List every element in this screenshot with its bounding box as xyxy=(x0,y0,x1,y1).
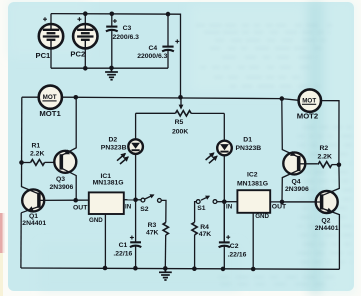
svg-text:MOT: MOT xyxy=(43,94,57,101)
svg-text:S1: S1 xyxy=(197,205,206,212)
svg-text:PN323B: PN323B xyxy=(101,145,127,152)
svg-text:S2: S2 xyxy=(140,206,149,213)
svg-text:2N3906: 2N3906 xyxy=(50,184,74,191)
svg-text:PN323B: PN323B xyxy=(236,145,262,152)
svg-text:OUT: OUT xyxy=(73,204,88,211)
svg-text:PC2: PC2 xyxy=(70,50,85,59)
svg-text:47K: 47K xyxy=(146,229,159,236)
svg-text:2N3906: 2N3906 xyxy=(285,186,309,193)
svg-text:MOT2: MOT2 xyxy=(297,111,318,120)
svg-text:MN1381G: MN1381G xyxy=(237,180,268,187)
svg-text:200K: 200K xyxy=(172,129,188,136)
svg-text:47K: 47K xyxy=(199,231,212,238)
svg-text:D2: D2 xyxy=(109,136,118,143)
svg-text:Q2: Q2 xyxy=(321,217,330,224)
svg-text:2N4401: 2N4401 xyxy=(315,225,339,232)
svg-text:2200/6.3: 2200/6.3 xyxy=(113,34,140,41)
svg-text:22000/6.3: 22000/6.3 xyxy=(137,53,167,60)
svg-text:PC1: PC1 xyxy=(36,51,52,60)
svg-text:GND: GND xyxy=(255,213,269,220)
svg-text:Q4: Q4 xyxy=(292,179,301,186)
svg-text:2N4401: 2N4401 xyxy=(22,220,46,227)
svg-text:Q1: Q1 xyxy=(29,213,38,220)
svg-text:R4: R4 xyxy=(200,224,209,231)
svg-text:MOT1: MOT1 xyxy=(39,109,61,118)
svg-text:IN: IN xyxy=(226,204,233,211)
svg-text:GND: GND xyxy=(89,217,103,224)
svg-text:.22/16: .22/16 xyxy=(228,252,247,259)
svg-text:2.2K: 2.2K xyxy=(318,153,332,160)
svg-text:R3: R3 xyxy=(148,222,157,229)
svg-text:D1: D1 xyxy=(243,136,252,143)
svg-text:R2: R2 xyxy=(320,145,329,152)
svg-text:IN: IN xyxy=(125,204,132,211)
svg-text:R1: R1 xyxy=(32,142,41,149)
svg-text:2.2K: 2.2K xyxy=(30,150,44,157)
svg-text:C4: C4 xyxy=(149,45,158,52)
svg-text:C2: C2 xyxy=(230,243,239,250)
svg-text:R5: R5 xyxy=(175,119,184,126)
svg-text:OUT: OUT xyxy=(272,203,287,210)
svg-text:C1: C1 xyxy=(119,242,128,249)
svg-text:.22/16: .22/16 xyxy=(113,251,132,258)
svg-text:IC2: IC2 xyxy=(247,171,258,178)
svg-text:MN1381G: MN1381G xyxy=(93,180,124,187)
svg-text:C3: C3 xyxy=(123,25,132,32)
svg-text:MOT: MOT xyxy=(302,98,316,105)
svg-text:Q3: Q3 xyxy=(56,176,65,183)
